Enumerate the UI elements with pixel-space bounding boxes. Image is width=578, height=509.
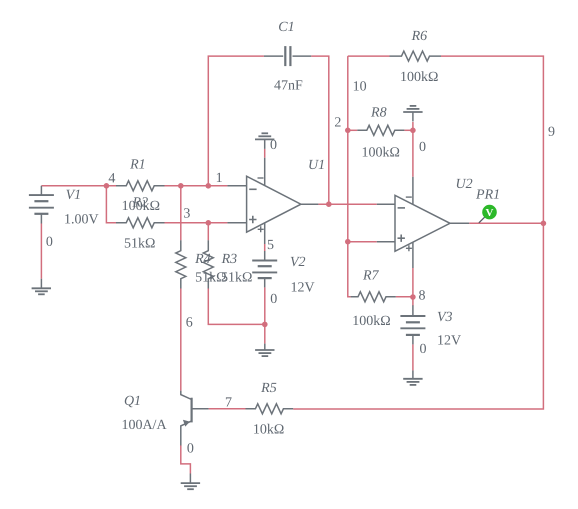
svg-text:U1: U1 [308, 158, 325, 173]
svg-text:12V: 12V [290, 281, 314, 296]
svg-text:100kΩ: 100kΩ [362, 146, 400, 161]
op-amp U1 input minus mark [249, 188, 256, 190]
wire U2 bottom supply to node 8 [412, 268, 414, 297]
junction node 2 [345, 128, 351, 134]
wire C1 right to U1 output vertical [311, 56, 329, 204]
op-amp U1 input plus mark [249, 216, 256, 223]
svg-text:100kΩ: 100kΩ [400, 70, 438, 85]
resistor R7 [351, 292, 396, 302]
svg-text:R3: R3 [221, 252, 238, 267]
junction node 3 [206, 220, 212, 226]
op-amp U2 input plus mark [398, 235, 405, 242]
svg-text:V1: V1 [66, 188, 82, 203]
ground above R8 (inverted) [403, 106, 422, 122]
svg-text:R1: R1 [129, 157, 146, 172]
svg-text:0: 0 [419, 140, 426, 155]
svg-text:Q1: Q1 [124, 394, 141, 409]
svg-text:C1: C1 [278, 20, 294, 35]
svg-text:47nF: 47nF [274, 78, 303, 93]
wire U1 output row to U2 minus input [318, 203, 376, 205]
probe PR1 [479, 205, 497, 223]
svg-text:V3: V3 [437, 310, 453, 325]
svg-text:V2: V2 [290, 255, 306, 270]
wire U2 output to node9 [469, 222, 543, 224]
wire R1 right to U1 minus input [165, 185, 228, 187]
op-amp U1 [227, 158, 318, 244]
wire node3 to R3 top [207, 223, 209, 241]
svg-text:5: 5 [267, 238, 274, 253]
ground above U1 (inverted) [255, 133, 274, 149]
svg-text:9: 9 [548, 125, 555, 140]
wire node8 to V3 top [412, 297, 414, 306]
svg-text:0: 0 [46, 235, 53, 250]
battery V3 [400, 305, 425, 344]
svg-text:R5: R5 [260, 381, 277, 396]
svg-text:R8: R8 [370, 106, 387, 121]
wire V1 top to R1 left [41, 185, 116, 187]
wire net2 vertical R6-R8-U2plus-R7 [348, 56, 351, 297]
junction V2 ground [262, 322, 268, 328]
ground under V2 [255, 344, 274, 357]
wire R8 left stub [348, 129, 358, 131]
wire R7 right to node 8 [396, 296, 413, 298]
junction R4 tap node1 [178, 183, 184, 189]
wire R2 right to U1 plus input [165, 222, 228, 224]
svg-text:0: 0 [187, 441, 194, 456]
capacitor C1 [264, 46, 311, 66]
wire U2 top supply [412, 130, 414, 177]
svg-text:V: V [486, 207, 494, 219]
svg-text:6: 6 [186, 315, 193, 330]
svg-text:1: 1 [216, 171, 223, 186]
svg-text:R6: R6 [411, 29, 428, 44]
resistor R3 (vertical) [203, 240, 213, 288]
junction U1 output C1 [326, 201, 332, 207]
op-amp U2 [377, 177, 469, 268]
op-amp U1 top supply minus mark [258, 177, 264, 179]
resistor R5 [246, 404, 294, 414]
wire junction to V2 ground [264, 324, 266, 343]
svg-text:0: 0 [270, 138, 277, 153]
svg-text:8: 8 [418, 289, 425, 304]
dependent source Q1 (transistor-style) [181, 391, 209, 446]
svg-text:10: 10 [353, 80, 367, 95]
svg-text:PR1: PR1 [475, 188, 500, 203]
resistor R2 [116, 218, 165, 228]
svg-text:2: 2 [334, 116, 341, 131]
svg-text:10kΩ: 10kΩ [253, 422, 284, 437]
battery V1 [29, 186, 54, 224]
svg-text:3: 3 [183, 206, 190, 221]
resistor R6 [390, 51, 442, 61]
ground under V1 [32, 279, 51, 295]
wire R8 right to node junction [404, 129, 413, 131]
wire Q1 emitter to ground jog [181, 446, 191, 474]
Q1 emitter arrow [183, 420, 190, 427]
svg-text:7: 7 [225, 395, 232, 410]
wire node4 vertical down to R2 row [106, 186, 116, 223]
svg-text:U2: U2 [456, 177, 473, 192]
svg-text:R2: R2 [132, 195, 149, 210]
svg-text:4: 4 [108, 171, 115, 186]
svg-text:51kΩ: 51kΩ [221, 270, 252, 285]
junction U2 plus [345, 239, 351, 245]
op-amp U2 input minus mark [398, 207, 405, 209]
wire V3 bottom to ground [412, 344, 414, 370]
resistor R1 [116, 181, 165, 191]
op-amp U2 top supply minus mark [406, 196, 412, 198]
op-amp U1 bottom supply plus mark [258, 226, 264, 232]
svg-text:12V: 12V [437, 334, 461, 349]
svg-text:R7: R7 [362, 269, 380, 284]
ground under Q1 emitter [181, 474, 200, 490]
wire R8 junction to ground stub [412, 122, 414, 130]
wire Q1 base to R5 left (node 7) [209, 408, 246, 410]
ground under V3 [403, 370, 422, 385]
wire V1 bottom to ground [40, 224, 42, 279]
wire U1 top supply [264, 149, 266, 158]
svg-text:1.00V: 1.00V [64, 212, 99, 227]
wire C1 left vertical from node 1 [208, 56, 264, 186]
svg-text:51kΩ: 51kΩ [124, 236, 155, 251]
battery V2 [252, 251, 277, 287]
wire U2 plus row [348, 241, 377, 243]
svg-text:100kΩ: 100kΩ [352, 314, 390, 329]
wire V2 bottom to junction [264, 287, 266, 324]
junction R8 right supply [410, 128, 416, 134]
junction node 4 [104, 183, 110, 189]
resistor R8 [357, 125, 404, 135]
svg-text:0: 0 [270, 292, 277, 307]
wire R3 bottom to ground junction [208, 289, 264, 325]
junction node 1 [206, 183, 212, 189]
svg-text:R4: R4 [194, 252, 211, 267]
wire R6 left [348, 55, 390, 57]
wire U1 bottom supply to V2 [264, 244, 266, 251]
resistor R4 (vertical) [176, 240, 186, 288]
wire R4 bottom to Q1 collector (node 6) [180, 289, 182, 391]
svg-text:100A/A: 100A/A [121, 418, 167, 433]
op-amp U2 bottom supply plus mark [406, 245, 412, 251]
svg-text:0: 0 [419, 342, 426, 357]
wire R6 right and node9 loop down to R5 [293, 56, 543, 409]
wire node1 to R4 top [180, 186, 182, 241]
junction node 8 [410, 294, 416, 300]
junction U2 output node9 [541, 221, 547, 227]
